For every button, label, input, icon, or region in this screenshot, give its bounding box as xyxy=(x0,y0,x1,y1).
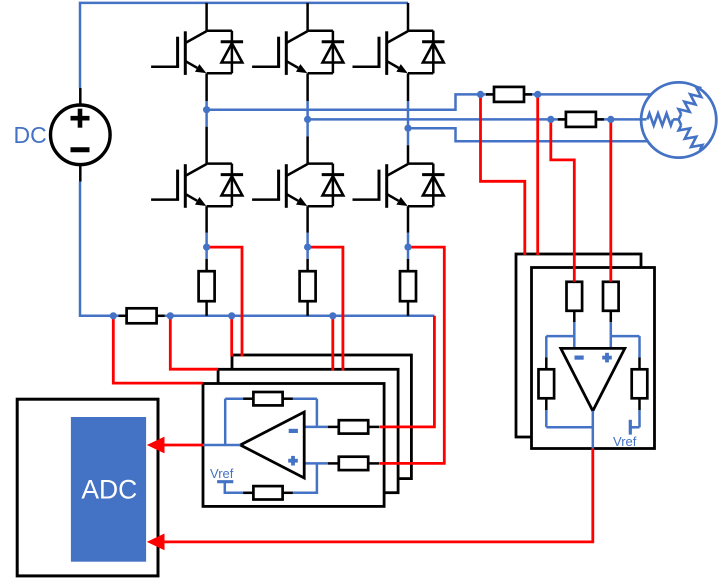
wire phase A node to motor xyxy=(207,94,651,109)
resistor U2 plus input xyxy=(328,457,379,470)
diode D4 xyxy=(221,164,243,207)
wire red leg2 shunt bottom tap xyxy=(331,316,334,371)
wire leg 1 emitter to shunt xyxy=(205,206,208,316)
op-amp box U2 back xyxy=(232,355,411,479)
igbt Q5 xyxy=(252,164,333,208)
wire leg 2 collector xyxy=(306,3,309,31)
wire red phase B left tap xyxy=(551,119,575,281)
node phase C xyxy=(404,125,411,132)
op-amp U3 vref wire xyxy=(611,336,640,427)
op-amp U2 plus sign xyxy=(288,456,298,466)
diode D2 xyxy=(322,31,344,74)
diode D6 xyxy=(422,164,444,207)
resistor U2 minus input xyxy=(328,420,379,433)
wire DC+ to top rail xyxy=(80,3,408,88)
wire red leg2 shunt top tap xyxy=(308,247,343,370)
resistor R_shunt2 xyxy=(300,271,316,301)
igbt Q6 xyxy=(353,164,434,208)
svg-text:Vref: Vref xyxy=(210,466,234,481)
dc source V1 xyxy=(51,88,111,182)
resistor R_shunt3 xyxy=(400,271,416,301)
wire leg 3 collector xyxy=(407,3,410,31)
op-amp box U2 middle xyxy=(218,369,398,492)
op-amp U3 plus sign xyxy=(602,353,612,363)
op-amp U2 minus input wire xyxy=(304,426,328,429)
op-amp box U2 front xyxy=(203,384,384,507)
node phase B res right xyxy=(607,116,614,123)
igbt Q4 xyxy=(151,164,232,208)
wire red leg3 shunt bottom tap xyxy=(380,316,435,427)
resistor U2 feedback xyxy=(243,392,293,405)
resistor U3 minus input xyxy=(567,282,583,311)
node phase A res left xyxy=(477,91,484,98)
resistor U3 plus input xyxy=(603,282,619,311)
svg-text:ADC: ADC xyxy=(81,475,137,505)
resistor R_phaseA xyxy=(486,87,532,102)
wire leg 3 phase vertical xyxy=(407,73,410,163)
node phase B xyxy=(304,116,311,123)
resistor R_shunt1 xyxy=(199,271,215,301)
wire phase C node to motor xyxy=(408,128,648,141)
op-amp U2 feedback wire xyxy=(225,399,317,445)
wire red bus shunt tap left xyxy=(113,316,203,383)
node rail leg1 xyxy=(228,312,235,319)
wire red U2 output to ADC xyxy=(147,437,203,454)
wire red leg3 shunt top tap xyxy=(380,247,445,463)
motor M1 xyxy=(641,82,716,157)
wire red U3 output to ADC xyxy=(147,449,593,551)
vref terminal U3 xyxy=(629,420,632,435)
op-amp U2 triangle xyxy=(240,412,304,478)
node leg1 shunt top xyxy=(203,244,210,251)
resistor R_phaseB xyxy=(558,112,604,127)
node phase A xyxy=(203,106,210,113)
wire red bus shunt tap right xyxy=(170,316,218,369)
wire leg 1 collector xyxy=(205,3,208,31)
diode D1 xyxy=(221,31,243,74)
node rail bus left xyxy=(110,312,117,319)
op-amp U2 output wire xyxy=(203,444,240,447)
op-amp U3 minus sign xyxy=(575,356,584,360)
resistor U2 vref xyxy=(243,486,293,499)
wire red phase A left tap xyxy=(481,94,525,255)
diode D3 xyxy=(422,31,444,74)
wire leg 1 phase vertical xyxy=(205,73,208,163)
igbt Q2 xyxy=(252,31,333,75)
node leg3 shunt top xyxy=(404,244,411,251)
node rail leg2 xyxy=(329,312,336,319)
label Vref U2 xyxy=(210,466,234,481)
op-amp U2 minus sign xyxy=(289,429,298,433)
wire DC- to bottom rail xyxy=(80,182,434,316)
resistor R_bus shunt xyxy=(119,308,165,323)
resistor U3 vref xyxy=(632,369,648,398)
op-amp U3 output wire blue xyxy=(592,411,595,449)
ADC box xyxy=(17,399,158,576)
wire red leg1 shunt bottom tap xyxy=(230,316,233,357)
vref terminal U2 xyxy=(217,480,233,483)
op-amp box U3 back xyxy=(516,254,641,437)
label Vref U3 xyxy=(613,434,637,449)
wire phase B node to motor xyxy=(308,118,647,121)
wire red phase A right tap xyxy=(536,94,539,255)
op-amp U3 input wires xyxy=(574,311,611,349)
resistor U3 feedback xyxy=(539,369,555,398)
node phase B res left xyxy=(547,116,554,123)
igbt Q1 xyxy=(151,31,232,75)
ADC core xyxy=(71,417,146,562)
wire leg 2 phase vertical xyxy=(306,73,309,163)
node phase A res right xyxy=(534,91,541,98)
node rail bus right xyxy=(167,312,174,319)
op-amp box U3 front xyxy=(532,268,655,449)
wire leg 2 emitter to shunt xyxy=(306,206,309,316)
wire red leg1 shunt top tap xyxy=(207,247,242,356)
svg-text:Vref: Vref xyxy=(613,434,637,449)
svg-text:DC: DC xyxy=(14,122,47,148)
op-amp U3 feedback wire xyxy=(546,336,593,427)
label DC xyxy=(14,122,47,148)
wire red phase B right tap xyxy=(609,119,612,281)
node leg2 shunt top xyxy=(304,244,311,251)
wire leg 3 emitter to shunt xyxy=(407,206,410,316)
op-amp U3 triangle xyxy=(561,348,625,411)
diode D5 xyxy=(322,164,344,207)
op-amp U2 plus input wire xyxy=(225,463,328,492)
igbt Q3 xyxy=(353,31,434,75)
